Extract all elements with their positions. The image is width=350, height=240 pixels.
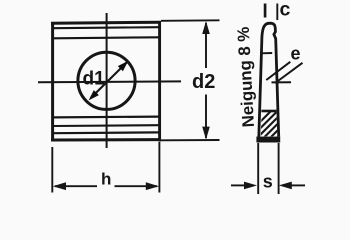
right edge [158,22,161,142]
d1 diameter arrow line [91,61,128,98]
front view: square washer outline [38,13,181,148]
svg-text:d2: d2 [192,71,215,93]
svg-text:d1: d1 [83,69,106,90]
d2 arrowhead top [202,21,210,34]
svg-text:h: h [101,170,111,189]
svg-text:s: s [263,172,273,192]
d2 dimension [161,20,220,140]
bottom edge [51,138,161,141]
d2 dimension line lower part [205,95,207,139]
profile outline [259,23,279,137]
s dimension line right part [291,184,305,186]
d2 extension line bottom [161,139,220,141]
c extension line [276,4,278,21]
top inner line 1 [54,27,159,28]
centerline stub at hole axis [272,81,292,83]
s dimension [231,143,305,194]
horizontal centerline [38,80,181,83]
hatch lines [252,102,284,163]
top inner line 2 [54,37,159,38]
h dimension line left part [55,185,97,187]
d1 arrowhead lower-left [89,90,99,100]
d2 arrowhead bottom [202,127,210,140]
h extension line left [51,147,53,193]
e leader diagonal 2 [275,63,302,83]
h dimension line right part [115,185,158,187]
s extension line right [278,143,280,194]
svg-text:c: c [280,0,291,21]
top edge [51,22,161,23]
s arrowhead right (pointing left) [279,182,292,190]
d1 arrowhead upper-right [118,61,128,71]
e leader diagonal 1 [266,62,290,80]
h arrowhead left [53,182,66,190]
vertical centerline [106,13,108,148]
h arrowhead right [146,182,159,190]
left edge [51,23,54,142]
bottom inner line 1 [54,115,159,118]
s extension line left [257,143,259,194]
hatch area top border [261,110,276,113]
d2 dimension line upper part [205,23,207,68]
bottom inner line 2 [54,124,159,127]
d2 extension line top [161,19,220,22]
h extension line right [158,142,160,193]
hole circle d1 [78,52,135,109]
hole top dash [261,52,272,54]
svg-text:l: l [262,0,267,22]
h dimension [52,142,159,193]
profile bottom edge [256,137,280,143]
s dimension line left part [231,184,245,186]
bottom inner line 3 [54,131,159,134]
svg-text:e: e [291,44,301,64]
s arrowhead left (pointing right) [244,182,257,190]
